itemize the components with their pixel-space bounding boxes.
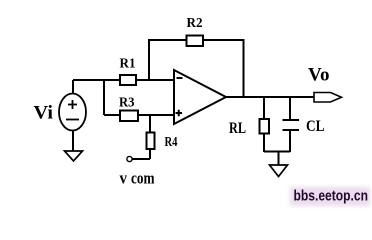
svg-text:Vi: Vi: [34, 103, 54, 124]
svg-text:R3: R3: [119, 96, 135, 111]
svg-text:bbs.eetop.cn: bbs.eetop.cn: [294, 189, 369, 205]
svg-text:R1: R1: [120, 57, 136, 72]
svg-text:R2: R2: [187, 16, 203, 31]
svg-text:com: com: [131, 169, 155, 188]
svg-text:Vo: Vo: [308, 65, 330, 86]
svg-text:v: v: [120, 169, 128, 188]
svg-text:R4: R4: [165, 135, 178, 150]
svg-text:RL: RL: [229, 120, 246, 137]
svg-text:CL: CL: [306, 118, 325, 135]
